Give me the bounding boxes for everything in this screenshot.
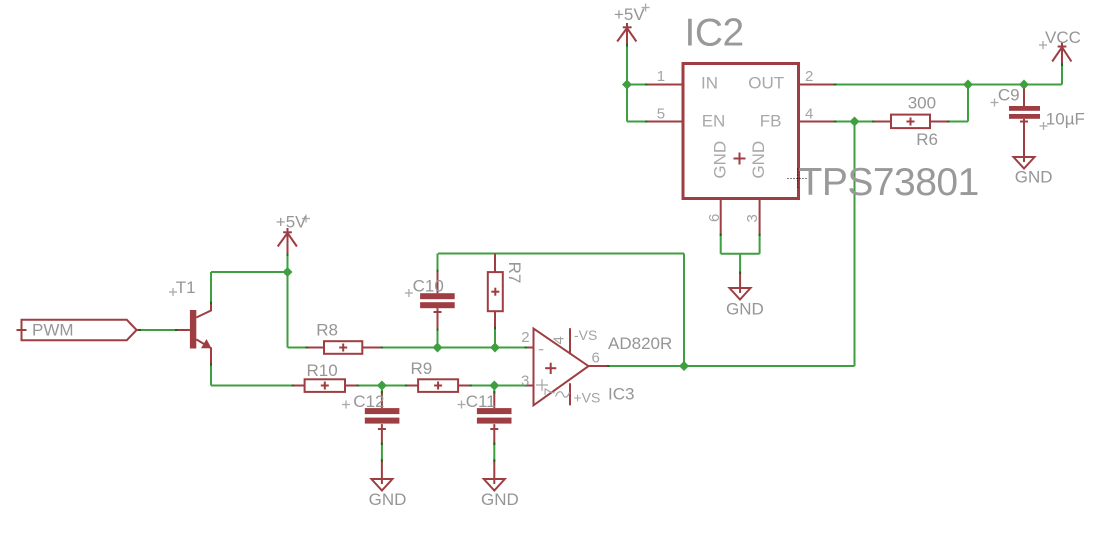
svg-text:VCC: VCC xyxy=(1045,28,1081,47)
svg-text:6: 6 xyxy=(592,350,600,367)
svg-text:FB: FB xyxy=(760,112,782,131)
svg-text:GND: GND xyxy=(726,300,764,319)
svg-text:300: 300 xyxy=(908,94,936,113)
svg-text:R7: R7 xyxy=(505,262,524,284)
svg-text:R9: R9 xyxy=(411,359,433,378)
svg-text:+5V: +5V xyxy=(614,5,645,24)
svg-text:R8: R8 xyxy=(316,320,338,339)
svg-text:+5V: +5V xyxy=(276,213,307,232)
svg-text:EN: EN xyxy=(702,112,726,131)
svg-text:AD820R: AD820R xyxy=(608,334,672,353)
svg-text:1: 1 xyxy=(657,68,665,85)
svg-text:OUT: OUT xyxy=(748,74,784,93)
svg-text:5: 5 xyxy=(657,106,665,123)
svg-text:4: 4 xyxy=(551,336,568,344)
svg-text:GND: GND xyxy=(481,490,519,509)
svg-text:C12: C12 xyxy=(353,392,384,411)
svg-text:C11: C11 xyxy=(466,392,496,411)
svg-text:GND: GND xyxy=(369,490,407,509)
svg-text:IN: IN xyxy=(701,74,718,93)
svg-text:10µF: 10µF xyxy=(1046,110,1085,129)
svg-text:IC2: IC2 xyxy=(685,12,744,55)
svg-text:IC3: IC3 xyxy=(608,385,634,404)
svg-text:C9: C9 xyxy=(998,86,1020,105)
svg-text:R6: R6 xyxy=(916,130,938,149)
svg-text:R10: R10 xyxy=(307,361,338,380)
svg-text:4: 4 xyxy=(805,106,813,123)
svg-text:PWM: PWM xyxy=(32,320,74,339)
svg-text:GND: GND xyxy=(711,141,730,179)
svg-text:+VS: +VS xyxy=(574,389,601,405)
svg-text:C10: C10 xyxy=(413,277,444,296)
svg-text:-VS: -VS xyxy=(574,327,597,343)
svg-text:3: 3 xyxy=(521,372,529,389)
svg-text:6: 6 xyxy=(706,214,723,222)
svg-text:2: 2 xyxy=(805,68,813,85)
svg-text:3: 3 xyxy=(744,214,761,222)
svg-text:T1: T1 xyxy=(176,278,196,297)
svg-text:GND: GND xyxy=(749,141,768,179)
svg-text:TPS73801: TPS73801 xyxy=(799,161,979,204)
svg-text:GND: GND xyxy=(1015,168,1053,187)
svg-text:2: 2 xyxy=(521,329,529,346)
